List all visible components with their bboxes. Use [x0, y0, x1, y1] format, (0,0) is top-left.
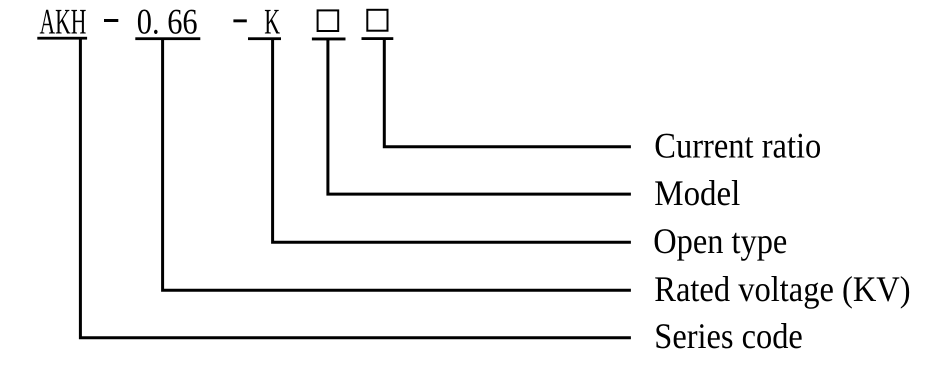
svg-text:AKH: AKH [40, 1, 87, 41]
svg-text:Open type: Open type [653, 221, 787, 261]
placeholder square 2 [367, 10, 387, 31]
wire from AKH to Series code [80, 40, 631, 338]
wire from square 2 to Current ratio [384, 40, 631, 147]
underline under square 1 [312, 38, 346, 41]
wire from square 1 to Model [328, 40, 631, 195]
wire from 0.66 to Rated voltage [163, 40, 631, 291]
underline under AKH [37, 37, 87, 40]
underline under 0.66 [135, 37, 200, 40]
svg-text:0. 66: 0. 66 [137, 2, 198, 42]
svg-text:K: K [264, 2, 280, 42]
svg-text:Current ratio: Current ratio [654, 126, 821, 166]
svg-text:Model: Model [654, 173, 740, 213]
svg-text:Series code: Series code [654, 316, 803, 356]
dash 1 [104, 19, 118, 22]
underline under square 2 [362, 37, 394, 40]
dash 2 [233, 19, 246, 22]
placeholder square 1 [318, 10, 339, 31]
wire from K to Open type [273, 40, 631, 243]
svg-text:Rated voltage (KV): Rated voltage (KV) [654, 269, 910, 309]
underline under K [248, 37, 281, 40]
